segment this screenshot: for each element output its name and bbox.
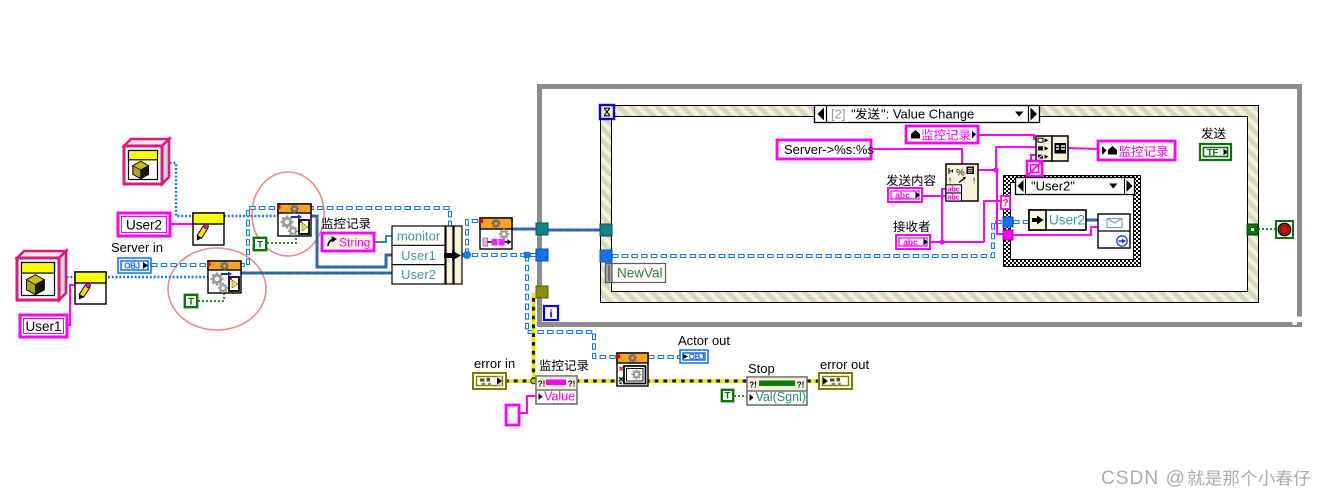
svg-text:?!: ?! — [568, 380, 576, 389]
boolean constant T for subVI B — [185, 295, 197, 307]
svg-text:?!: ?! — [749, 381, 757, 390]
svg-text:[2]: [2] — [831, 107, 845, 122]
concatenate strings node — [1036, 136, 1052, 161]
wire: class wire User1 write VI to subVI B — [108, 276, 208, 278]
svg-text:Value: Value — [544, 390, 575, 404]
annotation red ellipse around subVI A — [252, 172, 324, 256]
svg-text:!: ! — [949, 176, 951, 186]
wire: string User1 label to write VI — [66, 285, 76, 325]
svg-text:!: ! — [973, 176, 975, 186]
wire: object wire branch up to subVI C — [467, 221, 480, 255]
svg-text:String: String — [339, 236, 370, 250]
wire: string format output to concat input 2 and case tunnel — [978, 169, 996, 171]
svg-text:OBJ: OBJ — [124, 262, 140, 271]
wire: string EOL constant to concat input 3 — [1031, 155, 1036, 161]
svg-text:error in: error in — [474, 356, 515, 371]
svg-text:Stop: Stop — [748, 361, 775, 376]
svg-text:?!: ?! — [797, 381, 805, 390]
write VI for User1 — [75, 272, 106, 304]
write VI for User2 — [193, 213, 224, 245]
tunnel: event refnum on event structure — [600, 224, 612, 236]
event selector label — [815, 106, 1040, 123]
svg-text:": Value Change: ": Value Change — [881, 107, 974, 122]
wire: boolean T to Stop property — [734, 395, 747, 397]
class constant User1 cube — [17, 251, 66, 258]
label receiver — [893, 221, 905, 233]
while loop border — [540, 87, 1300, 325]
terminal error in — [473, 373, 506, 389]
iteration terminal i — [544, 306, 558, 320]
svg-text:T: T — [188, 296, 194, 307]
wire: object wire inside event structure to case tunnel — [612, 222, 1003, 256]
wire: object wire case tunnel to User2 ring — [1013, 220, 1029, 224]
class constant User2 cube — [124, 139, 169, 146]
empty string constant — [506, 405, 519, 425]
wire: string local read to concat input 1 — [978, 135, 1040, 139]
boolean constant T for subVI A — [254, 238, 266, 250]
local variable read monitoring record — [906, 126, 978, 143]
terminal send boolean — [1200, 144, 1231, 160]
wire: object wire bundle out to while loop tunnel — [462, 253, 536, 257]
label User1 — [20, 315, 67, 337]
local variable write monitoring record — [1098, 141, 1175, 160]
terminal Server in OBJ — [118, 258, 151, 273]
String class constant — [322, 233, 374, 251]
wire: string class String constant to bundle monitor — [374, 236, 392, 242]
svg-text:"User2": "User2" — [1031, 179, 1075, 194]
svg-text:i: i — [549, 309, 552, 321]
tunnel: object on event structure — [600, 250, 612, 262]
wire: event refnum subVI A to bundle User1 — [311, 216, 392, 267]
label User2 — [118, 213, 170, 236]
svg-text:error out: error out — [820, 357, 870, 372]
annotation red ellipse around subVI B — [168, 248, 266, 330]
svg-text:%: % — [956, 168, 965, 179]
junction: object wire before loop tunnel — [524, 252, 530, 258]
svg-text:abc: abc — [947, 195, 959, 202]
subVI C obtain queue — [480, 218, 512, 249]
case selector terminal — [1001, 196, 1010, 209]
svg-text:User2: User2 — [1049, 213, 1085, 228]
svg-text:T: T — [725, 390, 731, 401]
wire: object wire branch down to launch subVI D — [527, 255, 617, 357]
tunnel: boolean out on event structure — [1247, 224, 1258, 235]
wire: object wire subVI D to Actor out — [648, 355, 680, 359]
wire: event refnum loop tunnel to event structure tunnel — [548, 229, 600, 232]
svg-text:Server->%s:%s: Server->%s:%s — [784, 142, 874, 157]
terminal error out — [819, 373, 852, 389]
subVI A register user event for User2 — [278, 204, 311, 236]
wire: string Server format constant to format node — [871, 149, 962, 164]
junction: error wire — [531, 378, 537, 384]
terminal Actor out OBJ — [680, 350, 708, 363]
svg-text:TF: TF — [1207, 147, 1219, 158]
wire: class wire User2 write VI to subVI A — [224, 215, 278, 217]
tunnel: object on case structure — [1003, 217, 1013, 227]
tunnel: error on while loop — [536, 286, 548, 298]
send user event node — [1098, 214, 1130, 248]
wire: event refnum User2 ring to send node — [1086, 219, 1098, 222]
tunnel: object on while loop — [536, 249, 548, 261]
svg-text:": " — [851, 107, 856, 122]
wire: class wire User1 cube to write VI — [59, 276, 75, 278]
svg-text:abc: abc — [947, 187, 959, 194]
wire: string receiver terminal to format node and case selector — [930, 241, 984, 243]
case structure border — [1004, 176, 1140, 266]
wire: boolean event tunnel to loop stop terminal — [1258, 228, 1276, 230]
svg-text:User1: User1 — [401, 248, 436, 263]
subVI D launch actor — [617, 353, 648, 386]
terminal send content string control — [888, 188, 922, 202]
format into string node — [946, 164, 978, 201]
junction: string wire format output — [993, 167, 998, 172]
property node monitoring record Value — [536, 376, 577, 404]
svg-text:monitor: monitor — [397, 229, 441, 244]
label monitoring record for String constant — [322, 218, 333, 229]
svg-text:User2: User2 — [126, 218, 162, 233]
wire: object wire Server in OBJ through subVI B up to subVI A and bundle — [151, 208, 450, 265]
svg-text:Server in: Server in — [111, 240, 163, 255]
terminal receiver string control — [896, 235, 930, 249]
label send content — [886, 174, 898, 186]
property node Stop Val(Sgnl) — [747, 377, 807, 405]
wire: boolean T to subVI A — [267, 237, 296, 243]
loop condition stop terminal — [1276, 221, 1293, 238]
tunnel: string on case structure — [1003, 230, 1013, 240]
bundle by name node monitor/User1/User2 — [392, 226, 445, 284]
wire: string case tunnel to send node — [1013, 227, 1098, 235]
svg-text:Actor out: Actor out — [678, 333, 730, 348]
wire: event refnum subVI B to bundle User2 — [241, 272, 392, 275]
wire: string User2 label to write VI — [166, 223, 193, 225]
wire: boolean T to subVI B — [198, 292, 224, 301]
svg-text:Val(Sgnl): Val(Sgnl) — [756, 390, 806, 404]
EOL string constant — [1027, 161, 1042, 176]
subVI B register user event for User1 — [208, 261, 241, 293]
svg-text:NewVal: NewVal — [617, 266, 663, 281]
User2 ring constant — [1029, 210, 1086, 230]
svg-text:User2: User2 — [401, 267, 436, 282]
wire: string empty constant to Value property — [519, 396, 536, 413]
svg-text:OBJ: OBJ — [689, 353, 705, 362]
label send — [1201, 127, 1213, 139]
wire: string concat output to local write — [1068, 148, 1098, 149]
case selector label — [1016, 178, 1135, 195]
wire: class wire User2 cube to write VI — [162, 163, 193, 216]
svg-text:CSDN @: CSDN @ — [1101, 468, 1186, 489]
svg-text:?!: ?! — [538, 380, 546, 389]
tunnel: event refnum on while loop — [536, 223, 548, 235]
svg-text:User1: User1 — [25, 319, 61, 334]
string constant Server format — [777, 140, 871, 159]
wire: error wire up to loop tunnel — [532, 293, 536, 381]
boolean constant T for Stop — [722, 390, 733, 401]
junction: string wire receiver — [939, 239, 944, 244]
wire: event refnum subVI C to loop tunnel — [512, 228, 536, 231]
svg-text:?: ? — [1002, 198, 1008, 209]
NewVal event data node — [606, 264, 666, 283]
junction: object wire at bundle output — [463, 251, 471, 259]
wire: error in wire — [505, 379, 747, 383]
event timeout terminal — [600, 105, 614, 119]
event structure border — [601, 106, 1258, 302]
svg-text:T: T — [257, 239, 263, 250]
label monitoring record property node — [540, 360, 551, 371]
wire: string send-content terminal to format node — [922, 195, 947, 197]
